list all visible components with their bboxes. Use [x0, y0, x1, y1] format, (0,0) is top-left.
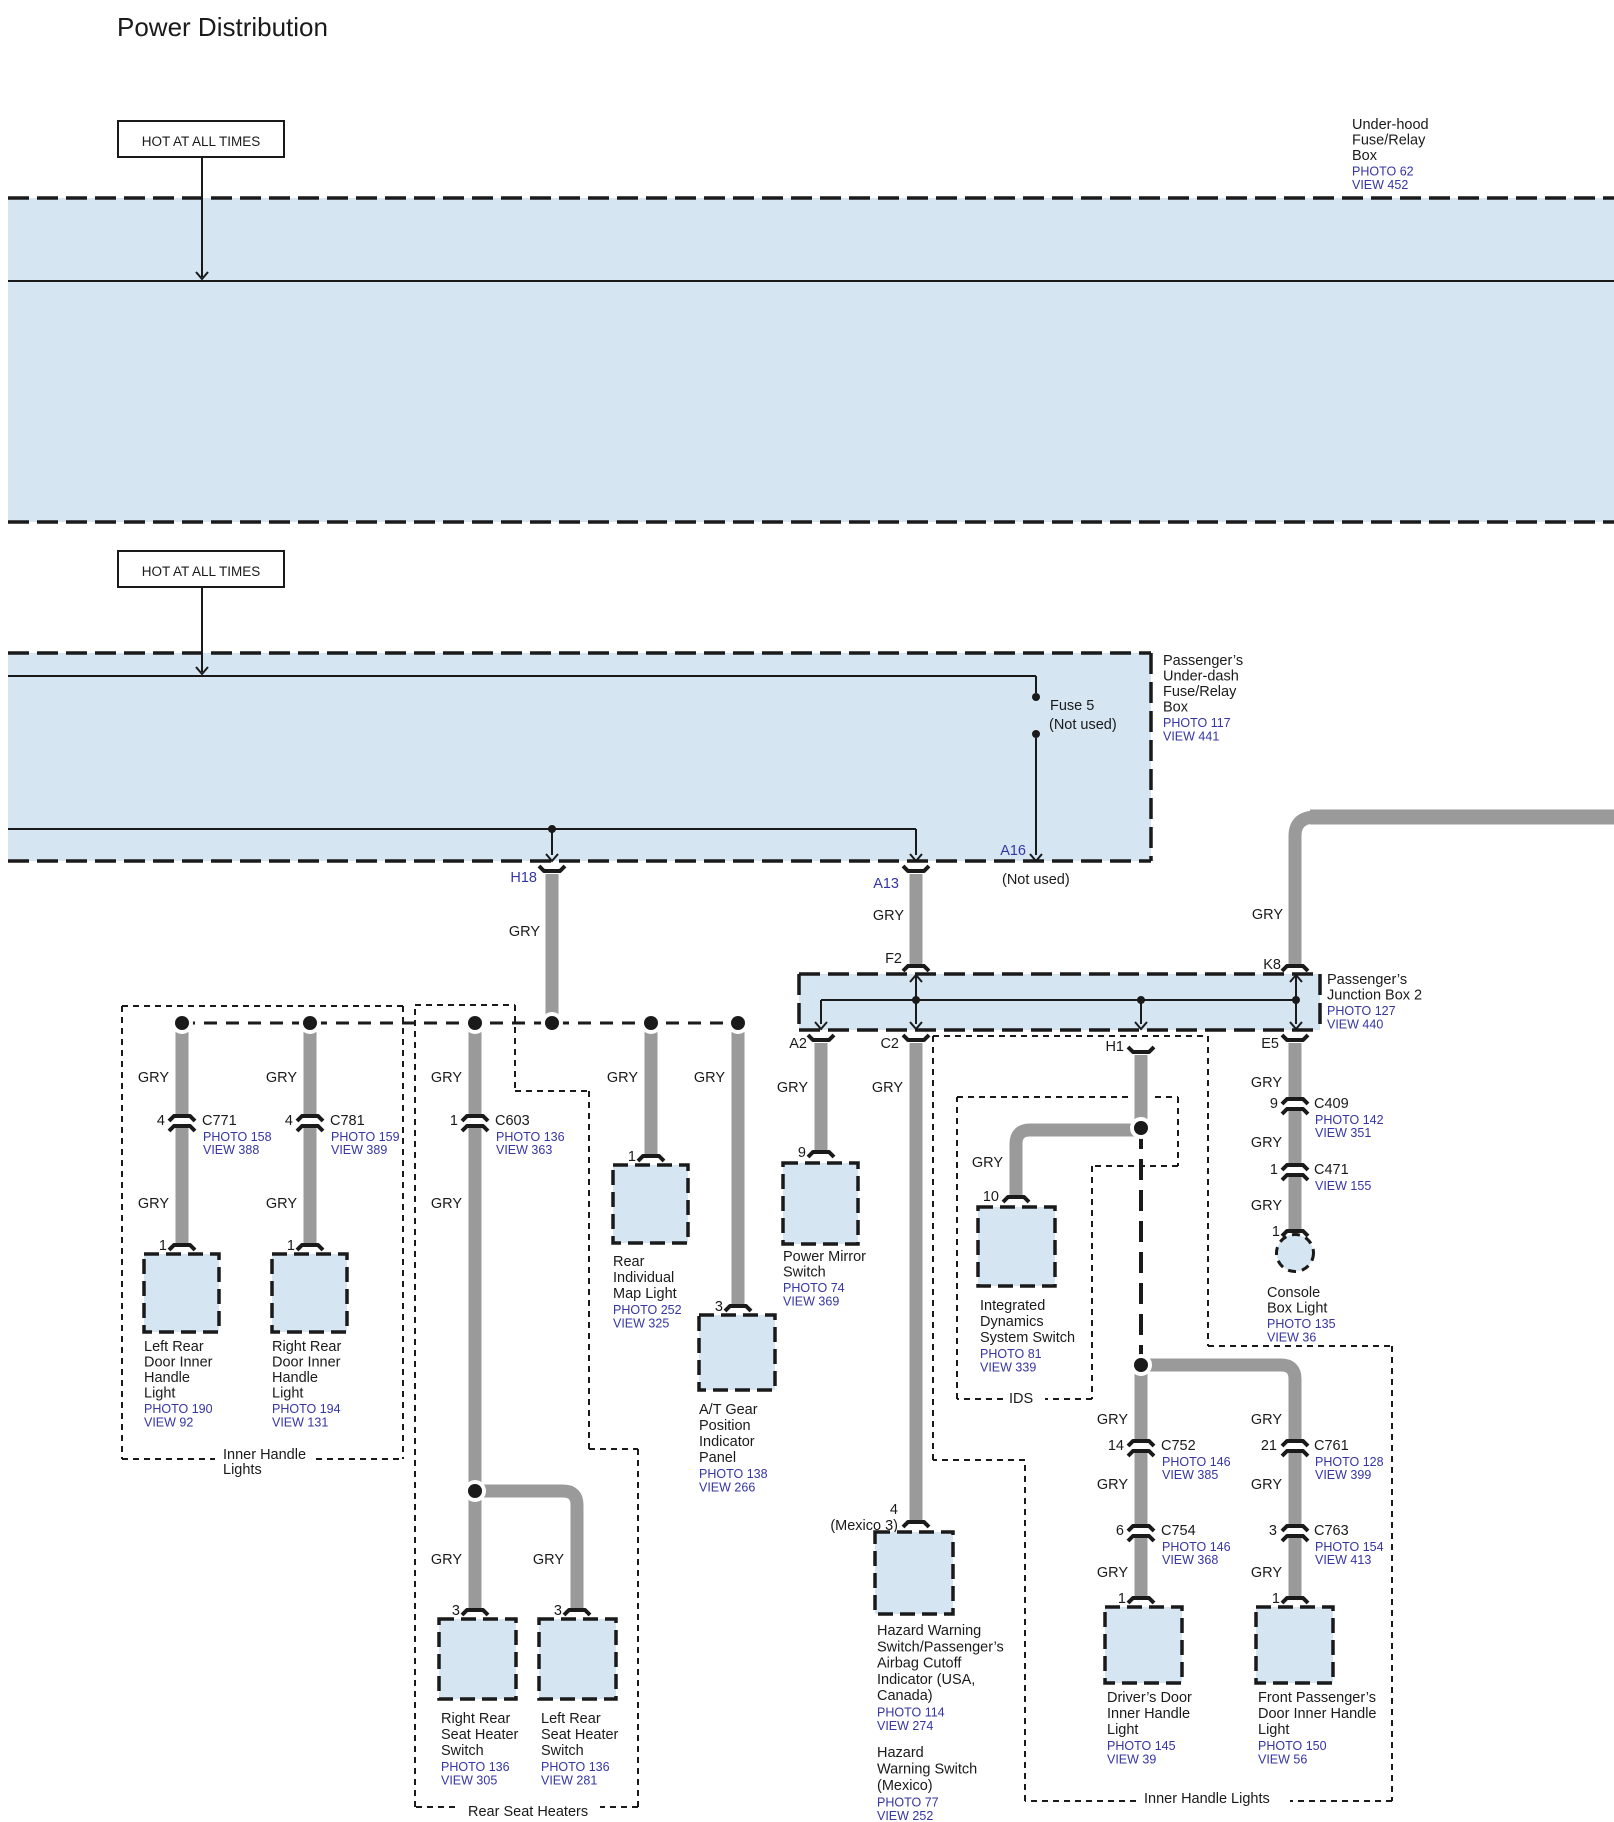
svg-text:(Not used): (Not used): [1049, 717, 1117, 733]
svg-text:GRY: GRY: [872, 1080, 903, 1096]
junction box internal bus: [821, 999, 1296, 1001]
svg-text:H1: H1: [1105, 1039, 1124, 1055]
svg-text:GRY: GRY: [1251, 1075, 1282, 1091]
wire GRY C771 to left rear door light: [176, 1128, 189, 1245]
wire color label GRY (C781 lower): [266, 1196, 297, 1212]
svg-text:IDS: IDS: [1009, 1391, 1033, 1407]
under-hood internal bus wire: [8, 280, 1614, 282]
pin label E5: [1261, 1036, 1279, 1052]
label Rear Individual Map Light: [613, 1254, 682, 1331]
svg-text:PHOTO 194: PHOTO 194: [272, 1402, 341, 1416]
svg-text:4: 4: [890, 1502, 898, 1518]
wire color label GRY (console light): [1251, 1198, 1282, 1214]
svg-text:Box Light: Box Light: [1267, 1301, 1327, 1317]
svg-text:Handle: Handle: [272, 1370, 318, 1386]
dashed group box IDS: [957, 1097, 1178, 1399]
svg-text:C771: C771: [202, 1113, 237, 1129]
connector cap console box light: [1282, 1231, 1308, 1236]
double arrow K8-E5: [1290, 975, 1302, 1029]
connector cap right rear door light: [297, 1245, 323, 1250]
svg-text:Light: Light: [1258, 1722, 1289, 1738]
wire color label GRY (A2): [777, 1080, 808, 1096]
svg-text:HOT AT ALL TIMES: HOT AT ALL TIMES: [142, 134, 261, 149]
svg-text:PHOTO 77: PHOTO 77: [877, 1796, 939, 1810]
svg-text:1: 1: [1118, 1591, 1126, 1607]
svg-text:Under-hood: Under-hood: [1352, 117, 1429, 133]
wire color label GRY (C752 upper): [1097, 1412, 1128, 1428]
svg-text:C761: C761: [1314, 1438, 1349, 1454]
svg-text:GRY: GRY: [777, 1080, 808, 1096]
svg-text:A13: A13: [873, 876, 899, 892]
svg-text:C752: C752: [1161, 1438, 1196, 1454]
svg-text:Indicator (USA,: Indicator (USA,: [877, 1672, 975, 1688]
node at H1 branch: [1137, 996, 1145, 1004]
wire GRY node to A/T gear panel: [732, 1023, 745, 1306]
svg-text:1: 1: [628, 1149, 636, 1165]
svg-text:VIEW 274: VIEW 274: [877, 1719, 933, 1733]
wire color label GRY (K8): [1252, 907, 1283, 923]
inline connector C471: [1282, 1165, 1308, 1180]
wire color label GRY (C781 upper): [266, 1070, 297, 1086]
pin label C2: [880, 1036, 899, 1052]
svg-text:Seat Heater: Seat Heater: [541, 1727, 619, 1743]
label box HOT AT ALL TIMES (second): [118, 551, 284, 587]
svg-text:A2: A2: [789, 1036, 807, 1052]
svg-text:C471: C471: [1314, 1162, 1349, 1178]
pin 3 at C763: [1269, 1523, 1277, 1539]
wire GRY C754 to driver's door light: [1135, 1538, 1148, 1598]
connector cup E5: [1282, 1035, 1308, 1040]
connector cap IDS switch: [1003, 1197, 1029, 1202]
svg-text:1: 1: [159, 1238, 167, 1254]
svg-text:Passenger’s: Passenger’s: [1163, 653, 1243, 669]
svg-text:PHOTO 158: PHOTO 158: [203, 1130, 272, 1144]
svg-text:Light: Light: [1107, 1722, 1138, 1738]
svg-text:4: 4: [157, 1113, 165, 1129]
wire color label GRY (C752-C754): [1097, 1477, 1128, 1493]
label Right Rear Door Inner Handle Light: [272, 1339, 341, 1430]
label C771: [202, 1113, 272, 1157]
fuse 5 terminal node upper: [1032, 693, 1040, 701]
svg-text:21: 21: [1261, 1438, 1277, 1454]
svg-text:10: 10: [983, 1189, 999, 1205]
svg-text:VIEW 369: VIEW 369: [783, 1295, 839, 1309]
svg-text:PHOTO 136: PHOTO 136: [496, 1130, 565, 1144]
wire branch to front passenger door light: [1146, 1365, 1295, 1440]
svg-text:Map Light: Map Light: [613, 1286, 677, 1302]
svg-text:1: 1: [287, 1238, 295, 1254]
svg-text:PHOTO 138: PHOTO 138: [699, 1467, 768, 1481]
svg-text:(Not used): (Not used): [1002, 872, 1070, 888]
passenger's junction box 2 body: [799, 974, 1320, 1030]
component A/T Gear Position Indicator Panel: [699, 1315, 775, 1390]
pin 10 at IDS switch: [983, 1189, 999, 1205]
svg-text:F2: F2: [885, 951, 902, 967]
svg-text:Rear Seat Heaters: Rear Seat Heaters: [468, 1804, 588, 1820]
wire color label GRY (C2): [872, 1080, 903, 1096]
inline connector C603: [462, 1116, 488, 1131]
node H18 distribution: [541, 1012, 563, 1034]
svg-text:PHOTO 150: PHOTO 150: [1258, 1739, 1327, 1753]
svg-text:Junction Box 2: Junction Box 2: [1327, 988, 1422, 1004]
svg-text:Inner Handle: Inner Handle: [223, 1447, 306, 1463]
svg-text:PHOTO 117: PHOTO 117: [1163, 716, 1231, 730]
svg-text:C763: C763: [1314, 1523, 1349, 1539]
component Integrated Dynamics System Switch: [978, 1207, 1055, 1286]
connector cap right heater switch: [462, 1610, 488, 1615]
svg-text:GRY: GRY: [1251, 1477, 1282, 1493]
svg-text:Console: Console: [1267, 1285, 1320, 1301]
wire GRY C471 to console box light: [1289, 1177, 1302, 1231]
svg-text:GRY: GRY: [873, 908, 904, 924]
inline connector C752: [1128, 1441, 1154, 1456]
svg-text:Position: Position: [699, 1418, 751, 1434]
wire continuation dashed (H1): [1139, 1128, 1143, 1365]
svg-text:PHOTO 136: PHOTO 136: [441, 1760, 510, 1774]
svg-text:Individual: Individual: [613, 1270, 674, 1286]
wire color label GRY (C761 upper): [1251, 1412, 1282, 1428]
svg-text:PHOTO 154: PHOTO 154: [1315, 1540, 1384, 1554]
wire color label GRY (C771 upper): [138, 1070, 169, 1086]
svg-text:GRY: GRY: [1251, 1412, 1282, 1428]
pin 1 at left rear door light: [159, 1238, 167, 1254]
connector cap hazard switch: [903, 1522, 929, 1527]
component Power Mirror Switch: [783, 1163, 858, 1244]
connector cap left heater switch: [564, 1610, 590, 1615]
connector cup C2: [903, 1035, 929, 1040]
svg-text:3: 3: [554, 1603, 562, 1619]
label (Mexico 3): [830, 1518, 898, 1534]
component Console Box Light (lamp symbol): [1277, 1235, 1314, 1272]
label Hazard Warning Switch (Mexico): [877, 1745, 977, 1822]
pin 9 at C409: [1270, 1096, 1278, 1112]
node branch 5: [727, 1012, 749, 1034]
wire GRY node to map light: [645, 1023, 658, 1156]
label Fuse 5 (Not used): [1049, 698, 1117, 733]
svg-text:Hazard Warning: Hazard Warning: [877, 1623, 981, 1639]
svg-text:VIEW 131: VIEW 131: [272, 1416, 328, 1430]
pin 4 at C781: [285, 1113, 293, 1129]
wire GRY C761 to C763: [1289, 1453, 1302, 1525]
svg-text:PHOTO 62: PHOTO 62: [1352, 165, 1414, 179]
svg-text:VIEW 155: VIEW 155: [1315, 1179, 1371, 1193]
label C752: [1161, 1438, 1231, 1482]
svg-text:(Mexico): (Mexico): [877, 1778, 933, 1794]
svg-text:3: 3: [452, 1603, 460, 1619]
pin 3 at right heater switch: [452, 1603, 460, 1619]
svg-text:VIEW 389: VIEW 389: [331, 1143, 387, 1157]
svg-text:Left Rear: Left Rear: [144, 1339, 204, 1355]
svg-text:A/T Gear: A/T Gear: [699, 1402, 758, 1418]
svg-text:Inner Handle Lights: Inner Handle Lights: [1144, 1791, 1270, 1807]
fuse 5 terminal node lower: [1032, 730, 1040, 738]
pin 1 at right rear door light: [287, 1238, 295, 1254]
label Inner Handle Lights (left box): [223, 1447, 306, 1478]
connector cup A13: [903, 866, 929, 871]
svg-text:GRY: GRY: [138, 1070, 169, 1086]
svg-text:Dynamics: Dynamics: [980, 1314, 1044, 1330]
pin 9 at power mirror switch: [798, 1145, 806, 1161]
svg-text:GRY: GRY: [138, 1196, 169, 1212]
label A/T Gear Position Indicator Panel: [699, 1402, 768, 1495]
svg-text:VIEW 339: VIEW 339: [980, 1361, 1036, 1375]
wire to right rear seat heater switch: [469, 1491, 482, 1610]
label box HOT AT ALL TIMES (top): [118, 121, 284, 157]
svg-text:VIEW 363: VIEW 363: [496, 1143, 552, 1157]
svg-text:PHOTO 146: PHOTO 146: [1162, 1455, 1231, 1469]
arrow to H1: [1135, 1000, 1147, 1029]
svg-text:Fuse 5: Fuse 5: [1050, 698, 1094, 714]
svg-text:1: 1: [1270, 1162, 1278, 1178]
wire GRY A2 to power mirror switch: [815, 1043, 828, 1152]
dashed group box Inner Handle Lights (left): [122, 1006, 403, 1459]
wire color label GRY (right heater): [431, 1552, 462, 1568]
svg-text:VIEW 281: VIEW 281: [541, 1774, 597, 1788]
connector cap power mirror switch: [808, 1152, 834, 1157]
svg-text:PHOTO 114: PHOTO 114: [877, 1706, 945, 1720]
dashed distribution wire from H18: [182, 1022, 738, 1025]
label Left Rear Seat Heater Switch: [541, 1711, 619, 1788]
svg-text:GRY: GRY: [509, 924, 540, 940]
title: [117, 12, 328, 42]
inline connector C763: [1282, 1526, 1308, 1541]
svg-text:PHOTO 145: PHOTO 145: [1107, 1739, 1176, 1753]
svg-text:PHOTO 128: PHOTO 128: [1315, 1455, 1384, 1469]
svg-text:VIEW 56: VIEW 56: [1258, 1753, 1307, 1767]
svg-text:Switch: Switch: [783, 1265, 826, 1281]
component Left Rear Door Inner Handle Light: [144, 1254, 219, 1332]
label Hazard Warning Switch/Passenger's Airbag Cutoff Indicator: [877, 1623, 1004, 1733]
svg-text:E5: E5: [1261, 1036, 1279, 1052]
svg-text:Canada): Canada): [877, 1688, 933, 1704]
svg-text:VIEW 385: VIEW 385: [1162, 1468, 1218, 1482]
svg-text:PHOTO 135: PHOTO 135: [1267, 1317, 1336, 1331]
wire GRY node to C781: [304, 1023, 317, 1115]
pin label H1: [1105, 1039, 1124, 1055]
node branch 3: [464, 1012, 486, 1034]
svg-text:GRY: GRY: [694, 1070, 725, 1086]
label C603: [495, 1113, 565, 1157]
svg-text:VIEW 325: VIEW 325: [613, 1317, 669, 1331]
pin label A2: [789, 1036, 807, 1052]
svg-text:GRY: GRY: [431, 1070, 462, 1086]
wire color label GRY (E5): [1251, 1075, 1282, 1091]
svg-text:PHOTO 81: PHOTO 81: [980, 1347, 1042, 1361]
pin 4 at C771: [157, 1113, 165, 1129]
wire GRY node to C771: [176, 1023, 189, 1115]
pin 1 at console box light: [1272, 1224, 1280, 1240]
component Hazard Warning Switch: [875, 1532, 953, 1614]
wire color label GRY (H18): [509, 924, 540, 940]
svg-text:VIEW 399: VIEW 399: [1315, 1468, 1371, 1482]
wire color label GRY (A13): [873, 908, 904, 924]
connector cap map light: [638, 1156, 664, 1161]
inline connector C761: [1282, 1441, 1308, 1456]
under-hood fuse/relay box body: [8, 198, 1614, 522]
pin label H18: [510, 870, 537, 886]
label Driver's Door Inner Handle Light: [1107, 1690, 1192, 1767]
svg-text:C781: C781: [330, 1113, 365, 1129]
connector cup H1: [1128, 1047, 1154, 1052]
svg-text:System Switch: System Switch: [980, 1330, 1075, 1346]
wire color label GRY (C761-C763): [1251, 1477, 1282, 1493]
svg-text:Right Rear: Right Rear: [441, 1711, 510, 1727]
component Front Passenger's Door Inner Handle Light: [1256, 1607, 1333, 1683]
pin 1 at front passenger door light: [1272, 1591, 1280, 1607]
wire color label GRY (front passenger light): [1251, 1565, 1282, 1581]
label Passenger's Junction Box 2: [1327, 972, 1422, 1032]
svg-text:Panel: Panel: [699, 1450, 736, 1466]
connector cap driver's door light: [1128, 1598, 1154, 1603]
svg-text:Handle: Handle: [144, 1370, 190, 1386]
wire GRY node to C603: [469, 1023, 482, 1115]
inline connector C771: [169, 1116, 195, 1131]
junction on bus B for H18: [548, 825, 556, 833]
label C754: [1161, 1523, 1231, 1567]
wire branch to left rear seat heater switch: [480, 1491, 577, 1610]
svg-text:Indicator: Indicator: [699, 1434, 755, 1450]
svg-text:VIEW 305: VIEW 305: [441, 1774, 497, 1788]
svg-text:VIEW 252: VIEW 252: [877, 1809, 933, 1822]
svg-text:Switch: Switch: [541, 1743, 584, 1759]
svg-text:VIEW 440: VIEW 440: [1327, 1018, 1383, 1032]
svg-text:Integrated: Integrated: [980, 1298, 1045, 1314]
svg-text:Power Distribution: Power Distribution: [117, 12, 328, 42]
svg-text:Lights: Lights: [223, 1462, 262, 1478]
wire branch to IDS switch: [1016, 1130, 1135, 1197]
svg-text:Light: Light: [144, 1386, 175, 1402]
svg-text:PHOTO 146: PHOTO 146: [1162, 1540, 1231, 1554]
pin label F2: [885, 951, 902, 967]
svg-text:9: 9: [798, 1145, 806, 1161]
svg-text:Fuse/Relay: Fuse/Relay: [1352, 133, 1426, 149]
component Left Rear Seat Heater Switch: [539, 1619, 616, 1699]
passenger's under-dash fuse/relay box body: [8, 653, 1151, 861]
svg-text:GRY: GRY: [431, 1196, 462, 1212]
pin label A13: [873, 876, 899, 892]
svg-text:VIEW 368: VIEW 368: [1162, 1553, 1218, 1567]
svg-text:1: 1: [450, 1113, 458, 1129]
wire from fuse 5 to A16: [1030, 738, 1042, 861]
wire GRY E5 to C409: [1289, 1043, 1302, 1098]
svg-text:1: 1: [1272, 1591, 1280, 1607]
label Power Mirror Switch: [783, 1249, 866, 1309]
label (Not used) below A16: [1002, 872, 1070, 888]
pin 1 at C471: [1270, 1162, 1278, 1178]
inline connector C409: [1282, 1099, 1308, 1114]
wire color label GRY (left heater): [533, 1552, 564, 1568]
svg-text:VIEW 266: VIEW 266: [699, 1481, 755, 1495]
label C781: [330, 1113, 400, 1157]
component Right Rear Door Inner Handle Light: [272, 1254, 347, 1332]
svg-text:3: 3: [715, 1299, 723, 1315]
svg-text:VIEW 413: VIEW 413: [1315, 1553, 1371, 1567]
svg-text:Warning Switch: Warning Switch: [877, 1762, 977, 1778]
svg-text:GRY: GRY: [972, 1155, 1003, 1171]
label Rear Seat Heaters: [468, 1804, 588, 1820]
svg-text:Door Inner: Door Inner: [272, 1355, 341, 1371]
component Right Rear Seat Heater Switch: [439, 1619, 516, 1699]
svg-text:Box: Box: [1163, 700, 1189, 716]
svg-text:Inner Handle: Inner Handle: [1107, 1706, 1190, 1722]
label Integrated Dynamics System Switch: [980, 1298, 1075, 1375]
svg-text:GRY: GRY: [1097, 1565, 1128, 1581]
svg-text:GRY: GRY: [266, 1070, 297, 1086]
wire GRY H1 upper segment: [1132, 1055, 1150, 1128]
wire color label GRY (C603 upper): [431, 1070, 462, 1086]
node branch 2: [299, 1012, 321, 1034]
wire GRY H18 to distribution node: [546, 874, 559, 1023]
label IDS: [1009, 1391, 1033, 1407]
svg-text:H18: H18: [510, 870, 537, 886]
svg-text:9: 9: [1270, 1096, 1278, 1112]
svg-text:Under-dash: Under-dash: [1163, 669, 1239, 685]
svg-text:GRY: GRY: [607, 1070, 638, 1086]
svg-text:VIEW 388: VIEW 388: [203, 1143, 259, 1157]
svg-text:Box: Box: [1352, 148, 1378, 164]
pin 3 at left heater switch: [554, 1603, 562, 1619]
label C471: [1314, 1162, 1371, 1193]
pin label K8: [1263, 957, 1281, 973]
inline connector C754: [1128, 1526, 1154, 1541]
svg-text:VIEW 39: VIEW 39: [1107, 1753, 1156, 1767]
pin 21 at C761: [1261, 1438, 1277, 1454]
svg-text:GRY: GRY: [1097, 1412, 1128, 1428]
wire GRY from off-page to K8: [1295, 817, 1614, 965]
svg-text:Power Mirror: Power Mirror: [783, 1249, 866, 1265]
svg-text:GRY: GRY: [431, 1552, 462, 1568]
wire GRY C752 to C754: [1135, 1453, 1148, 1525]
wire color label GRY (driver light): [1097, 1565, 1128, 1581]
node at K8/E5 branch: [1292, 996, 1300, 1004]
wire color label GRY (C771 lower): [138, 1196, 169, 1212]
junction node H1/IDS branch: [1130, 1117, 1152, 1139]
svg-text:PHOTO 74: PHOTO 74: [783, 1281, 845, 1295]
pin 1 at map light: [628, 1149, 636, 1165]
svg-text:Airbag Cutoff: Airbag Cutoff: [877, 1656, 962, 1672]
wire from HOT label to under-hood bus: [196, 157, 208, 279]
svg-text:PHOTO 142: PHOTO 142: [1315, 1113, 1384, 1127]
label Right Rear Seat Heater Switch: [441, 1711, 519, 1788]
component Rear Individual Map Light: [613, 1165, 688, 1243]
svg-text:VIEW 441: VIEW 441: [1163, 730, 1219, 744]
svg-text:VIEW 36: VIEW 36: [1267, 1331, 1316, 1345]
arrow from bus B to H18: [546, 829, 558, 861]
connector cap left rear door light: [169, 1245, 195, 1250]
svg-text:Fuse/Relay: Fuse/Relay: [1163, 684, 1237, 700]
svg-text:VIEW 351: VIEW 351: [1315, 1126, 1371, 1140]
wire GRY C603 down to heater junction: [469, 1128, 482, 1491]
wire GRY C763 to front passenger door light: [1289, 1538, 1302, 1598]
label Front Passenger's Door Inner Handle Light: [1258, 1690, 1377, 1767]
pin 4 at hazard switch: [890, 1502, 898, 1518]
under-dash internal bus B: [8, 829, 922, 861]
connector cap K8: [1282, 966, 1308, 971]
wire GRY C2 to hazard switch: [910, 1043, 923, 1522]
connector cap front passenger door light: [1282, 1598, 1308, 1603]
svg-text:GRY: GRY: [266, 1196, 297, 1212]
svg-text:K8: K8: [1263, 957, 1281, 973]
svg-text:Left Rear: Left Rear: [541, 1711, 601, 1727]
svg-text:PHOTO 136: PHOTO 136: [541, 1760, 610, 1774]
svg-text:C2: C2: [880, 1036, 899, 1052]
svg-text:Front Passenger’s: Front Passenger’s: [1258, 1690, 1376, 1706]
pin 1 at driver's door light: [1118, 1591, 1126, 1607]
svg-text:C603: C603: [495, 1113, 530, 1129]
svg-text:6: 6: [1116, 1523, 1124, 1539]
svg-text:VIEW 92: VIEW 92: [144, 1416, 193, 1430]
svg-text:GRY: GRY: [1252, 907, 1283, 923]
